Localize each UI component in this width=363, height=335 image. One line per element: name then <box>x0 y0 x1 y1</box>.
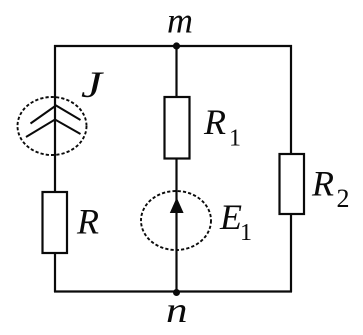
svg-text:1: 1 <box>229 126 241 152</box>
svg-text:m: m <box>167 1 193 41</box>
svg-text:2: 2 <box>337 184 350 213</box>
wire left branch <box>54 45 56 192</box>
current source J circle <box>18 97 87 155</box>
resistor R <box>43 192 68 253</box>
wire middle branch <box>175 45 177 97</box>
svg-text:R: R <box>311 164 334 204</box>
svg-text:1: 1 <box>240 220 252 246</box>
wire bottom (n rail) <box>54 290 292 292</box>
node n junction dot <box>173 289 180 296</box>
svg-text:R: R <box>203 102 226 142</box>
node m junction dot <box>173 42 180 49</box>
current source J double-arrow chevron lower <box>26 120 81 138</box>
svg-text:J: J <box>81 65 104 106</box>
svg-text:E: E <box>219 197 242 237</box>
current source J double-arrow chevron upper <box>31 106 81 124</box>
resistor R1 <box>165 97 190 159</box>
svg-text:R: R <box>76 202 99 242</box>
wire top (m rail) <box>54 45 292 47</box>
EMF source E1 circle <box>141 191 211 250</box>
svg-text:n: n <box>166 290 188 330</box>
EMF source E1 arrowhead <box>170 198 184 214</box>
wire right branch <box>290 45 292 154</box>
resistor R2 <box>280 154 305 214</box>
